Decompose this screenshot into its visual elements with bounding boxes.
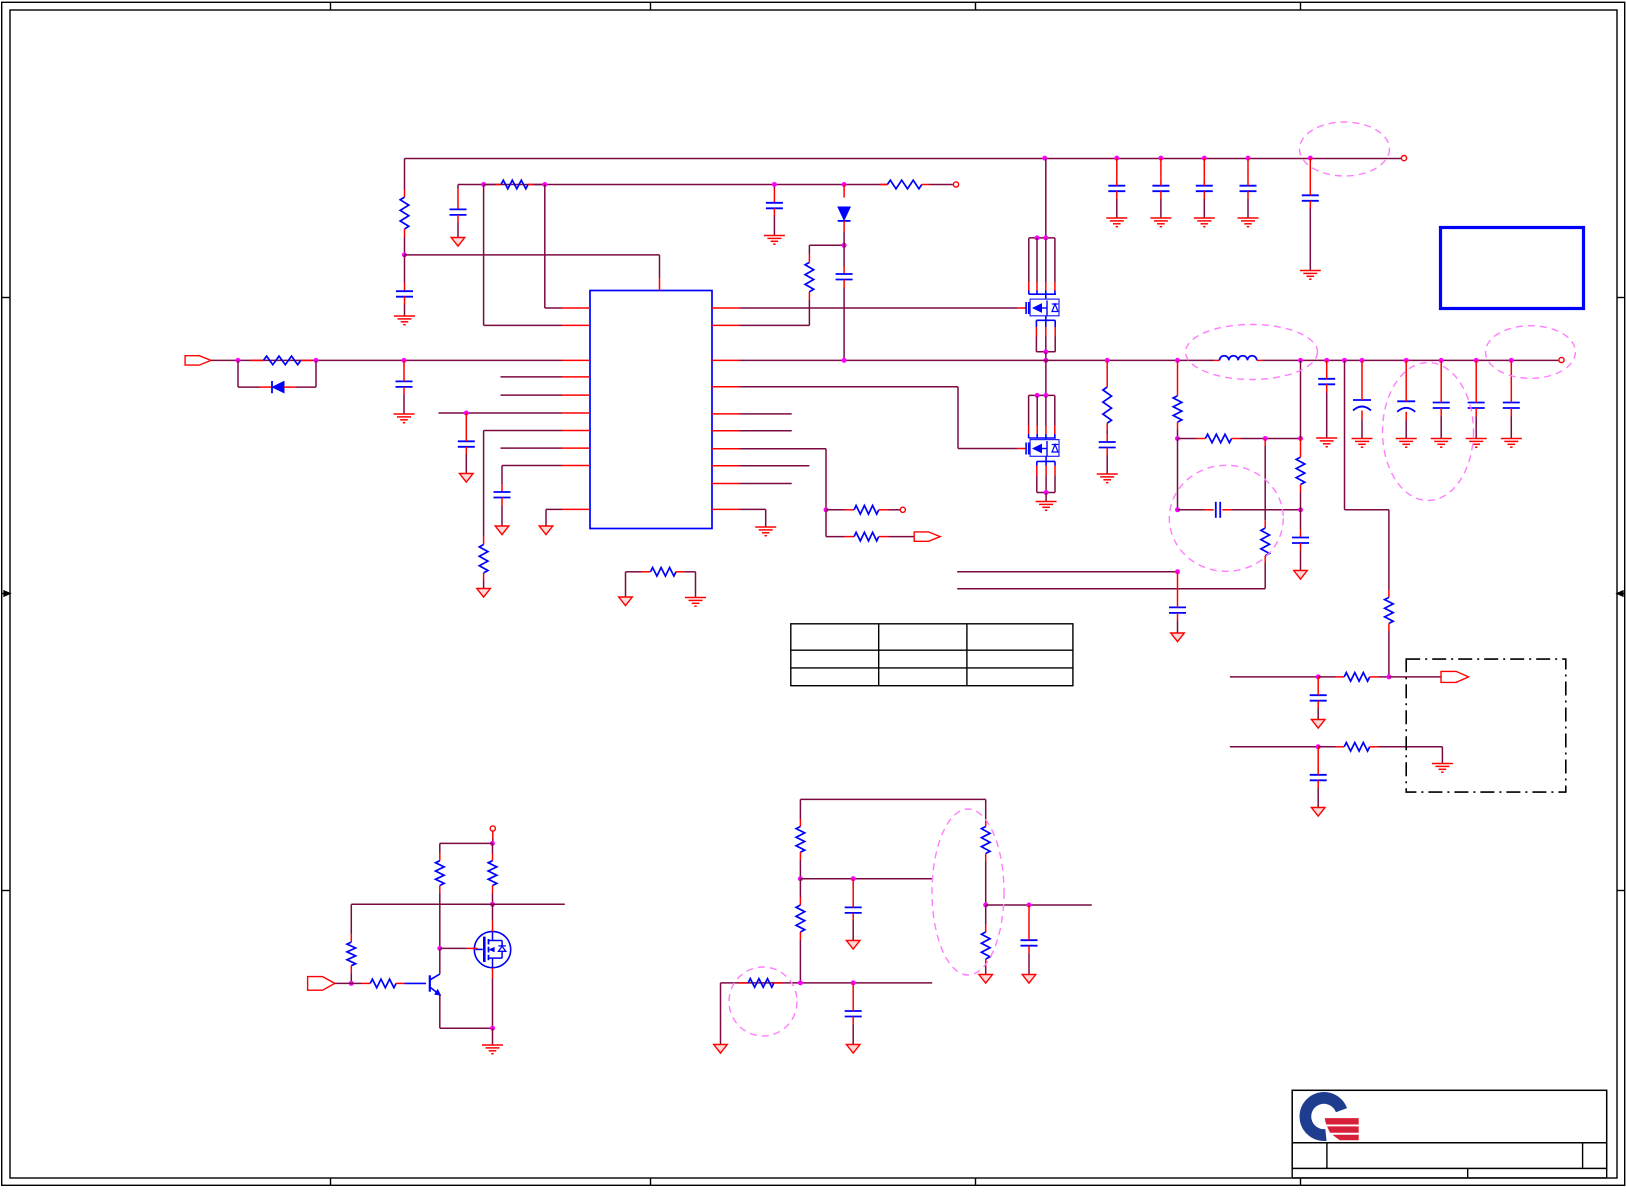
wire to gnd — [492, 1028, 494, 1045]
terminal — [953, 182, 958, 187]
ground — [1238, 218, 1259, 227]
ground — [482, 1045, 503, 1054]
revision table — [791, 624, 1073, 686]
wire source — [492, 968, 494, 1028]
transistor Q3 — [430, 974, 441, 995]
ground — [846, 941, 860, 950]
junction — [490, 1026, 495, 1031]
resistor R7 — [880, 180, 954, 189]
ground — [1311, 808, 1325, 817]
ground — [619, 597, 633, 606]
junction — [1509, 358, 1514, 363]
capacitor C20 — [1108, 158, 1125, 218]
wire pin10 — [546, 509, 562, 526]
terminal — [1401, 156, 1406, 161]
junction — [464, 411, 469, 416]
wire drain — [492, 904, 494, 931]
capacitor C19 — [845, 879, 862, 941]
junction — [824, 507, 829, 512]
ground — [1311, 720, 1325, 729]
ground — [394, 414, 415, 423]
wire row3 — [986, 904, 1092, 906]
junction — [1298, 358, 1303, 363]
terminal — [900, 507, 905, 512]
wire VREG to D2 — [773, 185, 775, 189]
resistor R11 — [1173, 360, 1182, 438]
connector J4 — [1441, 671, 1469, 682]
resistor R26 — [981, 819, 990, 905]
ground — [460, 474, 474, 483]
junction — [842, 243, 847, 248]
ground — [1501, 439, 1522, 448]
wire stub — [740, 483, 792, 485]
wire pin6 — [439, 412, 563, 414]
resistor R6 — [805, 245, 844, 300]
ground — [1466, 439, 1487, 448]
capacitor C14 — [1433, 360, 1450, 438]
junction — [1404, 358, 1409, 363]
ground — [685, 598, 706, 607]
capacitor C1 — [396, 255, 413, 316]
wire HG gate net — [740, 307, 1026, 309]
wire base net — [335, 982, 370, 984]
ground — [451, 238, 465, 247]
junction — [1439, 358, 1444, 363]
junction — [481, 182, 486, 187]
resistor R4 — [479, 537, 488, 589]
resistor R20 — [347, 934, 356, 983]
capacitor C17 — [1310, 677, 1327, 720]
logo — [1299, 1092, 1358, 1141]
highlight ellipse — [1186, 325, 1318, 380]
wire stub — [740, 430, 792, 432]
Q2 source bracket — [1037, 456, 1055, 501]
capacitor C19b — [766, 189, 783, 236]
resistor R5 — [626, 568, 696, 598]
resistor R1 — [400, 190, 409, 255]
ground — [1432, 764, 1453, 773]
junction — [542, 182, 547, 187]
junction — [842, 182, 847, 187]
IC U1 — [590, 291, 712, 529]
capacitor C21 — [1152, 158, 1169, 218]
junction — [798, 876, 803, 881]
highlight ellipse — [729, 967, 797, 1036]
junction — [1263, 436, 1268, 441]
junction — [1114, 156, 1119, 161]
resistor R25 — [739, 979, 783, 988]
wire emitter — [440, 995, 493, 1028]
highlight ellipse — [932, 809, 1004, 975]
capacitor C12 — [1353, 360, 1371, 438]
inductor L1 — [1214, 356, 1262, 361]
junction — [851, 980, 856, 985]
junction — [842, 358, 847, 363]
U1 top pin — [659, 278, 661, 291]
capacitor C18 — [1310, 747, 1327, 808]
resistor R17 — [1318, 743, 1442, 764]
highlight ellipse — [1300, 122, 1390, 176]
wire VIN5V top rail — [405, 159, 1402, 190]
capacitor C4 — [458, 413, 475, 474]
capacitor C21 — [1021, 905, 1038, 975]
wire to U1 top pin — [404, 255, 659, 278]
wire VCC stub — [492, 831, 494, 843]
capacitor C23 — [1240, 158, 1257, 218]
junction — [314, 358, 319, 363]
junction — [1474, 358, 1479, 363]
wire net2 — [1230, 746, 1318, 748]
wire FB node — [1177, 439, 1179, 510]
wire pin7 — [484, 431, 562, 537]
U1 left pins — [562, 308, 590, 509]
U1 right pins — [712, 308, 740, 509]
resistor R3 — [251, 356, 313, 365]
ground — [495, 526, 509, 535]
capacitor C10 — [1169, 572, 1186, 633]
ground — [1300, 271, 1321, 280]
ground — [1352, 439, 1373, 448]
junction — [1175, 569, 1180, 574]
wire VO sense — [1300, 360, 1302, 438]
capacitor C11 — [1318, 360, 1335, 438]
wire VREG rail — [458, 185, 887, 189]
junction — [402, 358, 407, 363]
wire collector — [439, 948, 441, 974]
capacitor C2 — [450, 189, 467, 238]
node A junction — [402, 252, 407, 257]
ground — [477, 589, 491, 598]
resistor R2 — [484, 180, 545, 189]
junction — [798, 980, 803, 985]
ground — [714, 1045, 728, 1054]
junction — [1246, 156, 1251, 161]
transistor Q2 — [1026, 393, 1059, 456]
highlight ellipse — [1486, 326, 1576, 379]
wire LG gate net — [740, 387, 1026, 449]
junction — [1342, 358, 1347, 363]
ground — [979, 975, 993, 984]
terminal — [1559, 357, 1564, 362]
block U2 — [1441, 228, 1584, 309]
capacitor C24 — [1302, 158, 1319, 270]
capacitor C7 — [1099, 434, 1116, 474]
wire top link — [800, 799, 985, 819]
wire pin9 — [502, 466, 562, 485]
wire VBAT — [211, 359, 562, 361]
junction — [1360, 358, 1365, 363]
resistor R24 — [796, 879, 805, 983]
resistor R19 — [488, 843, 497, 904]
junction — [437, 946, 442, 951]
junction — [1316, 744, 1321, 749]
capacitor C16 — [1503, 360, 1520, 438]
resistor R13 — [1296, 439, 1305, 530]
diode D2 — [838, 185, 851, 246]
ground — [1106, 218, 1127, 227]
highlight ellipse — [1383, 363, 1474, 501]
resistor R8 — [826, 506, 900, 515]
wire top loop — [440, 843, 493, 853]
capacitor C15 — [1468, 360, 1485, 438]
ground — [1194, 218, 1215, 227]
ground — [1294, 571, 1308, 580]
connector J3 — [308, 977, 335, 991]
wire EN feed — [1345, 360, 1389, 589]
wire SW feed Q2 — [1043, 358, 1048, 396]
ground — [1150, 218, 1171, 227]
wire pin R7 net — [740, 449, 827, 510]
ground — [1316, 438, 1337, 447]
wire VIN feed Q1 — [1042, 156, 1047, 238]
ground — [1171, 633, 1185, 642]
wire pin R10 gnd — [740, 509, 766, 527]
capacitor C9 — [1178, 502, 1301, 518]
ground — [1022, 975, 1036, 984]
transistor Q1 — [1026, 235, 1059, 315]
module outline — [1406, 659, 1566, 792]
ground — [1036, 502, 1057, 511]
ground — [846, 1045, 860, 1054]
wire gate lead — [440, 947, 478, 949]
wire to U1 pin 2 — [484, 185, 562, 326]
junction — [1202, 156, 1207, 161]
junction — [490, 841, 495, 846]
resistor R21 — [370, 979, 426, 988]
resistor R14 — [1261, 439, 1270, 589]
wire to U1 pin 1 — [545, 185, 562, 309]
wire SW rail — [740, 359, 1559, 361]
junction — [1316, 674, 1321, 679]
junction — [490, 902, 495, 907]
ground — [764, 236, 785, 245]
junction — [1298, 436, 1303, 441]
highlight ellipse — [1169, 465, 1283, 571]
left mid arrow marker — [2, 591, 10, 596]
junction — [772, 182, 777, 187]
capacitor C20 — [845, 983, 862, 1045]
wire stub — [740, 413, 792, 415]
wire stub — [740, 465, 810, 467]
capacitor C22 — [1196, 158, 1213, 218]
wire stub pin5 — [501, 394, 563, 396]
wire FB long 2 — [957, 588, 1265, 590]
capacitor C3 — [396, 360, 413, 414]
junction — [1105, 358, 1110, 363]
junction — [1298, 507, 1303, 512]
capacitor C13 — [1397, 360, 1415, 438]
junction — [983, 903, 988, 908]
junction — [349, 981, 354, 986]
ground — [1396, 439, 1417, 448]
resistor R18 — [436, 853, 445, 948]
ground — [394, 316, 415, 325]
transistor Q4 — [474, 931, 510, 967]
Q1 source bracket — [1036, 316, 1055, 361]
junction — [1175, 507, 1180, 512]
ground — [1431, 439, 1452, 448]
resistor R10 — [1103, 360, 1112, 434]
resistor R16 — [1318, 673, 1389, 682]
ground — [755, 527, 776, 536]
resistor R15 — [1385, 590, 1394, 677]
junction — [1027, 903, 1032, 908]
junction — [236, 358, 241, 363]
resistor R9 — [826, 510, 914, 541]
connector J1 VBAT — [185, 356, 211, 365]
resistor R12 — [1178, 434, 1301, 443]
ground — [539, 526, 553, 535]
terminal — [490, 826, 495, 831]
diode D1 — [238, 360, 316, 393]
wire pin R2 to R6 — [740, 300, 810, 325]
capacitor C8 — [1292, 530, 1309, 571]
wire stub pin8 — [501, 447, 563, 449]
title block — [1292, 1090, 1607, 1178]
ground — [1097, 474, 1118, 483]
resistor R27 — [981, 905, 990, 975]
junction — [1386, 674, 1391, 679]
wire stub pin4 — [501, 376, 563, 378]
junction — [1175, 358, 1180, 363]
junction — [1308, 156, 1313, 161]
wire gate row — [351, 904, 565, 934]
capacitor C5 — [494, 484, 511, 526]
wire to J4 — [1389, 676, 1441, 678]
wire net1 — [1230, 676, 1318, 678]
junction — [1158, 156, 1163, 161]
junction — [1324, 358, 1329, 363]
right mid arrow marker — [1617, 591, 1625, 596]
resistor R23 — [796, 819, 805, 879]
capacitor C6 — [836, 245, 853, 360]
wire row2 — [721, 983, 933, 1045]
connector J2 — [914, 532, 940, 541]
wire FB long 1 — [957, 571, 1177, 573]
wire row1 — [800, 878, 932, 880]
junction — [1175, 436, 1180, 441]
junction — [851, 876, 856, 881]
